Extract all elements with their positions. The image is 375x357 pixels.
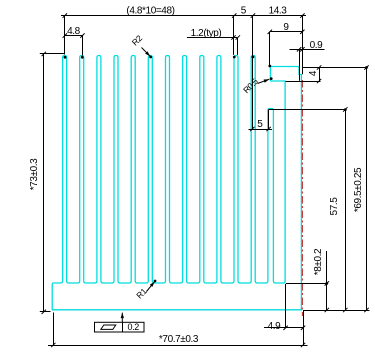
svg-text:*8±0.2: *8±0.2: [313, 248, 324, 275]
svg-text:0.2: 0.2: [128, 322, 140, 332]
svg-text:14.3: 14.3: [269, 6, 288, 17]
svg-text:5: 5: [241, 6, 247, 17]
svg-text:4.9: 4.9: [268, 321, 282, 332]
svg-text:1.2(typ): 1.2(typ): [191, 28, 222, 39]
svg-text:57.5: 57.5: [329, 197, 340, 216]
svg-text:*69.5±0.25: *69.5±0.25: [353, 167, 364, 212]
svg-text:5: 5: [257, 119, 263, 130]
svg-text:(4.8*10=48): (4.8*10=48): [126, 6, 174, 17]
svg-text:4.8: 4.8: [67, 26, 81, 37]
svg-text:9: 9: [283, 22, 289, 33]
svg-text:*70.7±0.3: *70.7±0.3: [159, 334, 199, 345]
svg-text:0.9: 0.9: [310, 40, 324, 51]
svg-text:*73±0.3: *73±0.3: [29, 158, 40, 190]
svg-text:4: 4: [308, 70, 319, 76]
